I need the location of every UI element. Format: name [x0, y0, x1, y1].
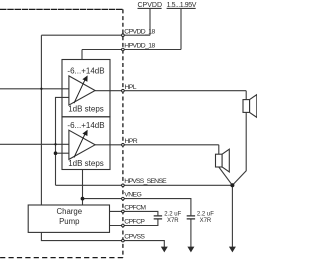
svg-text:1dB steps: 1dB steps	[68, 104, 104, 113]
svg-text:CPFCP: CPFCP	[124, 218, 145, 225]
svg-text:HPL: HPL	[125, 84, 137, 91]
svg-text:-6...+14dB: -6...+14dB	[67, 121, 104, 130]
svg-text:1.5...1.95V: 1.5...1.95V	[167, 2, 197, 9]
svg-text:Charge: Charge	[57, 207, 83, 216]
svg-text:X7R: X7R	[167, 218, 179, 224]
svg-text:-6...+14dB: -6...+14dB	[67, 67, 104, 76]
svg-text:HPR: HPR	[125, 138, 138, 145]
svg-text:CPVDD: CPVDD	[138, 2, 163, 9]
svg-text:1dB steps: 1dB steps	[68, 159, 104, 168]
svg-text:Pump: Pump	[59, 217, 80, 226]
svg-text:X7R: X7R	[200, 218, 212, 224]
svg-text:HPVDD_18: HPVDD_18	[124, 43, 155, 50]
svg-text:CPFCM: CPFCM	[124, 204, 146, 211]
svg-text:HPVSS_SENSE: HPVSS_SENSE	[124, 178, 167, 185]
svg-text:CPVSS: CPVSS	[124, 234, 145, 241]
svg-text:CPVDD_18: CPVDD_18	[124, 28, 155, 35]
svg-text:2.2 uF: 2.2 uF	[164, 211, 181, 217]
svg-text:VNEG: VNEG	[124, 192, 141, 199]
svg-text:2.2 uF: 2.2 uF	[197, 211, 214, 217]
